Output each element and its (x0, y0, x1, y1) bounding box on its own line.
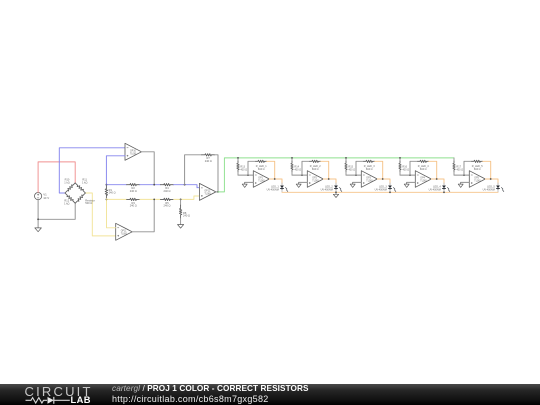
svg-text:400 Ω: 400 Ω (294, 168, 301, 171)
node junction OP10 output on rail (153, 184, 155, 186)
node junction green rail / stage 2 input (291, 157, 293, 159)
node junction stage 5 output / feedback (490, 178, 492, 180)
wire OP11 inverting input feedback (yellow) (107, 199, 116, 227)
resistor R_LED_2 604 Ohm (feedback) (310, 160, 321, 162)
svg-text:400 Ω: 400 Ω (348, 168, 355, 171)
svg-text:TL081: TL081 (204, 193, 211, 195)
resistor R17 400 Ohm (stage 5 input) (453, 158, 455, 161)
wire stage 5 feedback to output (orange) (483, 161, 491, 179)
svg-text:TL081: TL081 (420, 181, 427, 183)
svg-text:1 kΩ: 1 kΩ (64, 180, 69, 184)
svg-text:UV-400NM: UV-400NM (267, 188, 279, 191)
resistor "Resistor" (bridge bottom-right, sense) 500 Ohm (75, 193, 85, 203)
svg-text:OP5: OP5 (474, 178, 479, 180)
node junction V1- / bridge bottom (37, 218, 39, 220)
svg-text:604 Ω: 604 Ω (420, 168, 427, 171)
resistor R4 240 Ohm (160, 184, 173, 186)
resistor R1 240 Ohm (gain resistor) (105, 184, 107, 187)
svg-text:240 Ω: 240 Ω (109, 191, 116, 195)
svg-text:OP11: OP11 (121, 231, 127, 233)
wire stage 5 output (orange) (485, 179, 498, 184)
svg-text:240 Ω: 240 Ω (130, 189, 137, 193)
node junction stage 3 inverting input (355, 174, 357, 176)
svg-text:UV-400NM: UV-400NM (429, 188, 441, 191)
svg-text:240 Ω: 240 Ω (164, 204, 171, 208)
wire OP12 output stub (216, 191, 218, 193)
wire stage 1 feedback to output (orange) (267, 161, 275, 179)
wire stage 4 output (orange) (431, 179, 444, 184)
node junction stage 1 output / feedback (274, 178, 276, 180)
voltage source V1 10 V (35, 193, 42, 200)
svg-text:UV-400NM: UV-400NM (483, 188, 495, 191)
op-amp OP4 TL081 (stage 4) (415, 171, 431, 188)
LED LED_3 UV-400NM (389, 183, 391, 186)
wire net B (yellow) bridge right node to op-amp OP11 non-inverting input (85, 193, 115, 236)
node junction stage 5 inverting input (463, 174, 465, 176)
svg-text:TL081: TL081 (366, 181, 373, 183)
LED LED_1 UV-400NM (281, 183, 283, 186)
node junction stage 4 inverting input (409, 174, 411, 176)
wire OP10 output down to blue rail (142, 152, 155, 185)
svg-text:240 Ω: 240 Ω (130, 204, 137, 208)
wire stage 4 feedback up-leg (410, 161, 418, 175)
op-amp OP5 TL081 (stage 5) (469, 171, 485, 188)
resistor R_LED_3 604 Ohm (feedback) (364, 160, 375, 162)
svg-text:OP2: OP2 (312, 178, 317, 180)
footer bar (0, 384, 540, 405)
ground below R8 (178, 224, 184, 228)
resistor R_LED_5 604 Ohm (feedback) (472, 160, 483, 162)
node junction R1 bottom / OP11 feedback (106, 199, 108, 201)
ground main (35, 227, 42, 231)
svg-text:240 Ω: 240 Ω (164, 189, 171, 193)
svg-text:500 Ω: 500 Ω (85, 201, 92, 205)
wire OP10 inverting input feedback (blue) (106, 156, 125, 185)
resistor R_LED_1 604 Ohm (feedback) (256, 160, 267, 162)
LED LED_2 UV-400NM (335, 183, 337, 186)
op-amp OP2 TL081 (stage 2) (307, 171, 323, 188)
wire OP11 output up to yellow rail (132, 199, 154, 231)
resistor R14 400 Ohm (stage 2 input) (291, 158, 293, 161)
wire stage 2 output (orange) (323, 179, 336, 184)
resistor R15 400 Ohm (stage 3 input) (345, 158, 347, 161)
wire stage 3 input resistor to inverting input (346, 174, 361, 176)
wire LED cathode rail (orange) (282, 191, 498, 193)
resistor R8 240 Ohm (180, 199, 182, 205)
op-amp OP11 TL081 (bottom buffer) (116, 223, 133, 240)
svg-text:TL081: TL081 (130, 153, 137, 155)
svg-text:UV-400NM: UV-400NM (375, 188, 387, 191)
wire yellow rail segment 1 (106, 198, 126, 200)
svg-text:400 Ω: 400 Ω (240, 168, 247, 171)
node junction LED_2 cathode / ground (335, 191, 337, 193)
node junction stage 4 output / feedback (436, 178, 438, 180)
svg-text:OP1: OP1 (258, 178, 263, 180)
wire R7 to output node (215, 155, 218, 192)
ground stage 1 (242, 182, 247, 187)
ground on LED cathode rail (333, 192, 338, 197)
wire net V+ (red) from V1 top to bridge top (38, 162, 75, 193)
svg-text:OP12: OP12 (204, 191, 211, 193)
svg-text:240 Ω: 240 Ω (205, 159, 212, 163)
svg-text:604 Ω: 604 Ω (366, 168, 373, 171)
resistor R5 240 Ohm (160, 198, 173, 200)
op-amp OP10 TL081 (top buffer) (125, 143, 142, 160)
wire net LED drive (green) from OP12 output across top (218, 158, 454, 192)
wire stage 4 input resistor to inverting input (400, 174, 415, 176)
svg-text:604 Ω: 604 Ω (474, 168, 481, 171)
svg-text:400 Ω: 400 Ω (456, 168, 463, 171)
svg-text:OP4: OP4 (420, 178, 425, 180)
wire stage 5 non-inverting input to ground (461, 181, 470, 183)
svg-text:1 kΩ: 1 kΩ (82, 180, 87, 184)
wire V1 negative lead (37, 200, 39, 228)
resistor R16 400 Ohm (stage 4 input) (399, 158, 401, 161)
svg-text:TL081: TL081 (474, 181, 481, 183)
svg-text:TL081: TL081 (258, 181, 265, 183)
svg-text:604 Ω: 604 Ω (312, 168, 319, 171)
svg-text:10 V: 10 V (43, 196, 49, 200)
wire yellow rail segment 3 into OP12 non-inverting input (174, 196, 200, 199)
op-amp OP1 TL081 (stage 1) (253, 171, 269, 188)
svg-text:400 Ω: 400 Ω (402, 168, 409, 171)
node junction R1 top / OP10 feedback (106, 184, 108, 186)
wire stage 1 output (orange) (269, 179, 282, 184)
wire stage 4 non-inverting input to ground (407, 181, 416, 183)
resistor R13 400 Ohm (stage 1 input) (237, 158, 239, 161)
wire stage 5 feedback up-leg (464, 161, 472, 175)
node junction OP12 output (217, 191, 219, 193)
node junction stage 2 inverting input (301, 174, 303, 176)
node junction OP11 output on rail (153, 199, 155, 201)
svg-text:TL081: TL081 (121, 233, 128, 235)
resistor R7 240 Ohm (feedback) (202, 154, 215, 156)
svg-text:604 Ω: 604 Ω (258, 168, 265, 171)
svg-text:TL081: TL081 (312, 181, 319, 183)
wire stage 5 input resistor to inverting input (454, 174, 469, 176)
ground stage 2 (296, 182, 301, 187)
node junction green rail / stage 1 input (237, 157, 239, 159)
svg-text:240 Ω: 240 Ω (183, 214, 190, 218)
wire stage 2 feedback up-leg (302, 161, 310, 175)
wire stage 4 feedback to output (orange) (429, 161, 437, 179)
resistor R12 (bridge bottom-left) 1 kOhm (65, 193, 75, 203)
wire net A (blue) bridge left node to op-amp OP10 non-inverting input (59, 148, 125, 193)
node junction R8 tap (180, 199, 182, 201)
node junction stage 1 inverting input (247, 174, 249, 176)
resistor R11 (bridge top-right) 1 kOhm (75, 183, 85, 193)
wire stage 2 non-inverting input to ground (299, 181, 308, 183)
op-amp OP3 TL081 (stage 3) (361, 171, 377, 188)
wire stage 1 feedback up-leg (248, 161, 256, 175)
node junction feedback tap (184, 184, 186, 186)
LED LED_4 UV-400NM (443, 183, 445, 186)
node junction stage 3 output / feedback (382, 178, 384, 180)
resistor R10 (bridge top-left) 1 kOhm (65, 183, 75, 193)
wire stage 3 output (orange) (377, 179, 390, 184)
wire stage 2 feedback to output (orange) (321, 161, 329, 179)
node junction green rail / stage 3 input (345, 157, 347, 159)
wire stage 3 non-inverting input to ground (353, 181, 362, 183)
wire stage 2 input resistor to inverting input (292, 174, 307, 176)
wire blue rail segment 2 (140, 184, 161, 186)
node junction LED_3 cathode (389, 191, 391, 193)
svg-text:UV-400NM: UV-400NM (321, 188, 333, 191)
op-amp OP12 TL081 (difference amplifier) (199, 183, 216, 200)
wire feedback tap up to R7 (185, 155, 202, 185)
wire blue rail segment 1 (106, 184, 126, 186)
CircuitLab logo wordmark (25, 384, 93, 399)
wire stage 1 non-inverting input to ground (245, 181, 254, 183)
wire yellow rail segment 2 (140, 198, 161, 200)
node junction green rail / stage 4 input (399, 157, 401, 159)
wire stage 3 feedback to output (orange) (375, 161, 383, 179)
wire bridge bottom to V1 negative (38, 203, 75, 219)
svg-text:1 kΩ: 1 kΩ (64, 201, 69, 205)
ground stage 5 (458, 182, 463, 187)
svg-text:OP3: OP3 (366, 178, 371, 180)
ground stage 4 (404, 182, 409, 187)
wire stage 1 input resistor to inverting input (238, 174, 253, 176)
resistor R3 240 Ohm (127, 198, 140, 200)
node junction LED_4 cathode (443, 191, 445, 193)
svg-text:OP10: OP10 (130, 151, 137, 153)
LED LED_5 UV-400NM (497, 183, 499, 186)
resistor R2 240 Ohm (127, 184, 140, 186)
wire blue rail segment 3 into OP12 inverting input (174, 185, 200, 188)
wire stage 3 feedback up-leg (356, 161, 364, 175)
resistor R_LED_4 604 Ohm (feedback) (418, 160, 429, 162)
node junction stage 2 output / feedback (328, 178, 330, 180)
ground stage 3 (350, 182, 355, 187)
